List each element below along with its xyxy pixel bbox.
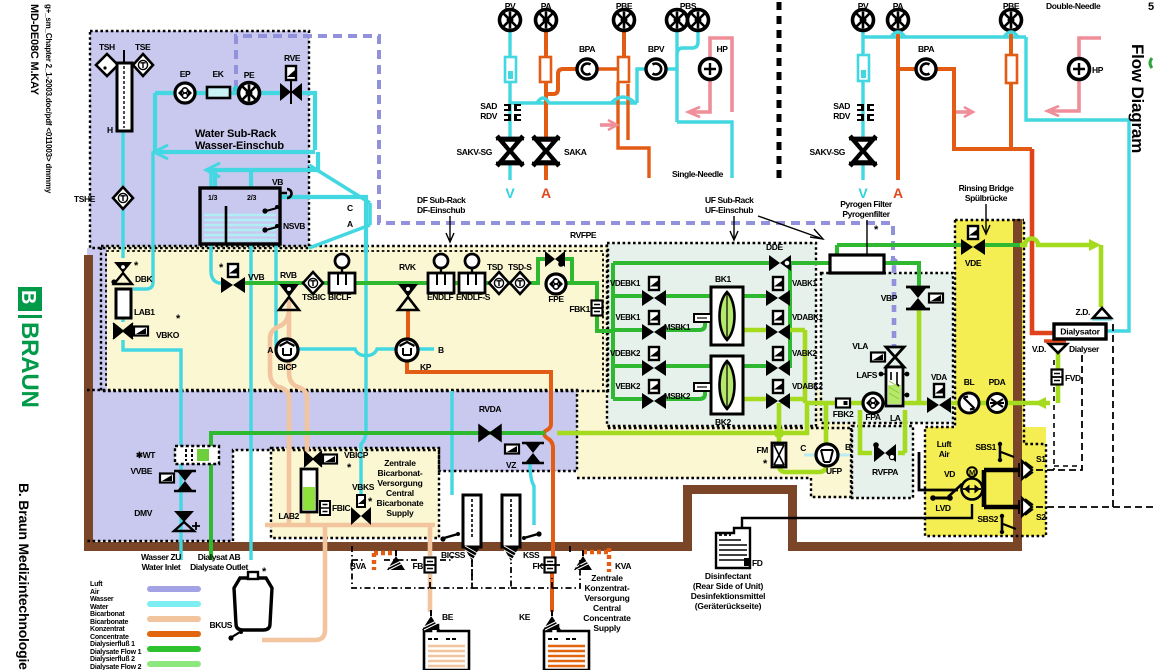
main used dialysate line: [557, 403, 807, 433]
svg-text:VBKS: VBKS: [352, 482, 375, 492]
dialysate out left segment: [211, 433, 545, 560]
svg-text:C: C: [347, 203, 353, 213]
valve RVE: [280, 66, 302, 104]
dialysator body: [1054, 324, 1106, 339]
svg-text:VBICP: VBICP: [344, 450, 369, 460]
valve VABK1: [766, 277, 790, 306]
svg-text:DF-Einschub: DF-Einschub: [417, 205, 465, 215]
svg-text:Bicarbonat: Bicarbonat: [90, 611, 125, 618]
heater to DBK line: [121, 131, 124, 258]
svg-text:Versorgung: Versorgung: [584, 593, 629, 603]
DF yellow right extension: [577, 390, 851, 478]
svg-text:TSD-S: TSD-S: [508, 262, 532, 272]
sensor TSD-S: [510, 272, 530, 294]
svg-text:VDEBK1: VDEBK1: [610, 279, 641, 288]
VEBK1 row: [613, 322, 705, 330]
svg-text:B: B: [845, 442, 851, 452]
wire double-needle venous main: [863, 35, 1026, 38]
svg-text:SAKV-SG: SAKV-SG: [810, 147, 846, 157]
svg-text:FVD: FVD: [1065, 373, 1081, 383]
svg-text:V: V: [505, 185, 515, 201]
svg-text:PE: PE: [244, 70, 255, 80]
svg-text:LAB1: LAB1: [134, 307, 155, 317]
junction node dot: [774, 428, 784, 438]
svg-text:FM: FM: [757, 445, 769, 455]
sensor TSH: [96, 54, 118, 76]
sensor SAD RDV double: [857, 104, 874, 121]
expansion chamber PBE double: [1006, 55, 1017, 83]
valve VVB: [221, 264, 245, 293]
BK right manifold: [803, 330, 808, 403]
valve VBKO: [113, 323, 133, 339]
water trap WT: [175, 446, 219, 464]
svg-text:Bicarbonate: Bicarbonate: [377, 498, 424, 508]
svg-text:RVDA: RVDA: [479, 404, 502, 414]
water sub-rack purple panel: [90, 31, 309, 248]
svg-text:Bicarbonate: Bicarbonate: [90, 619, 129, 626]
air line node dot at pyrogen green crossing: [890, 258, 898, 266]
valve RVDA: [479, 425, 501, 441]
central bicarbonate supply yellow box: [271, 448, 439, 538]
svg-text:EK: EK: [212, 69, 224, 79]
expansion chamber PV double: [858, 55, 869, 81]
svg-text:B: B: [438, 345, 444, 355]
svg-text:VDE: VDE: [965, 258, 982, 268]
svg-text:Rinsing Bridge: Rinsing Bridge: [959, 183, 1015, 193]
partial green mark right edge: [1150, 58, 1152, 68]
VZ to KSS line: [530, 462, 534, 525]
svg-text:A: A: [267, 345, 273, 355]
sensor LAFS: [879, 372, 884, 377]
wire to BKUS: [262, 525, 325, 640]
svg-text:Flow Diagram: Flow Diagram: [1128, 44, 1147, 153]
filter right port to VBP: [884, 263, 919, 287]
Z.D. cyan base: [1092, 317, 1112, 320]
svg-text:BICLF: BICLF: [328, 292, 351, 302]
valve VVBE: [174, 471, 196, 491]
pump PE: [239, 83, 260, 104]
probe MSBK2: [694, 383, 711, 391]
wire RVB through BICP to VBICP: [289, 300, 307, 452]
svg-text:ENDLF-S: ENDLF-S: [456, 292, 491, 302]
svg-text:S2: S2: [1036, 512, 1046, 522]
tank VB water tank: [200, 177, 305, 244]
svg-text:TSD: TSD: [487, 262, 503, 272]
svg-text:DMV: DMV: [134, 508, 152, 518]
svg-text:B: B: [17, 290, 39, 304]
wire double-needle to dialysator: [1026, 37, 1129, 331]
rinsing bridge VDE line: [837, 245, 1022, 255]
air line down to VLA: [892, 266, 897, 346]
svg-text:VVB: VVB: [248, 272, 265, 282]
svg-text:B. Braun Medizintechnologie: B. Braun Medizintechnologie: [16, 483, 32, 670]
lever at BICSS: [444, 534, 458, 538]
KVA dashed stub: [583, 548, 609, 572]
VABK drain manifold: [743, 263, 790, 366]
water rack return arrow 1: [158, 150, 315, 154]
switch SBS2: [1000, 514, 1016, 534]
svg-text:Double-Needle: Double-Needle: [1046, 1, 1101, 11]
air line node dot at PE: [233, 86, 240, 93]
svg-text:PV: PV: [505, 1, 516, 11]
svg-text:Pyrogen Filter: Pyrogen Filter: [840, 199, 893, 209]
dash-dot piping KVA group: [472, 546, 580, 588]
svg-text:RVK: RVK: [399, 262, 417, 272]
pump PV: [500, 10, 521, 31]
DF sub-rack border: [101, 246, 608, 391]
wire down to KE: [550, 560, 554, 634]
wire PBS lines: [677, 31, 698, 122]
svg-text:VEBK2: VEBK2: [615, 382, 641, 391]
label central bicarbonate supply: [377, 458, 424, 518]
restrictor FVD: [1052, 370, 1063, 385]
svg-text:FD: FD: [752, 558, 763, 568]
svg-text:VVBE: VVBE: [130, 466, 152, 476]
svg-text:Concentrate: Concentrate: [90, 634, 129, 641]
svg-text:PA: PA: [541, 1, 552, 11]
svg-text:Dialyser: Dialyser: [1069, 344, 1100, 354]
svg-text:BKUS: BKUS: [210, 620, 233, 630]
valve RVK: [398, 284, 418, 310]
BVA dashed stub: [374, 553, 396, 570]
conductivity ENDLF-S: [459, 254, 485, 293]
svg-text:Disinfectant: Disinfectant: [705, 571, 752, 581]
valve SAKA: [532, 136, 560, 166]
svg-text:Dialysator: Dialysator: [1060, 327, 1100, 337]
nozzle VB: [280, 189, 292, 198]
svg-text:Central: Central: [593, 603, 621, 613]
chamber LAB2: [278, 469, 317, 521]
sensor TSE: [133, 54, 153, 76]
pyrogen filter box border: [821, 273, 953, 423]
svg-text:Konzentrat: Konzentrat: [90, 626, 125, 633]
svg-text:PDA: PDA: [989, 377, 1006, 387]
FPE outlet to FBK1: [566, 283, 613, 331]
RVFPA mint panel: [852, 426, 913, 498]
wire PA double-needle down to A: [896, 31, 900, 180]
svg-text:RVE: RVE: [284, 53, 301, 63]
svg-text:NSVB: NSVB: [283, 221, 305, 231]
svg-text:Z.D.: Z.D.: [1076, 307, 1090, 317]
svg-text:Dialysate Outlet: Dialysate Outlet: [190, 562, 248, 572]
pump PBE double: [1001, 10, 1022, 31]
svg-text:ENDLF: ENDLF: [427, 292, 454, 302]
VEBK2 row: [613, 391, 705, 399]
svg-text:A: A: [347, 219, 353, 229]
rinse down to Z.D.: [1099, 245, 1104, 307]
sensor TSHE: [113, 187, 133, 209]
svg-text:2/3: 2/3: [247, 195, 256, 202]
svg-text:FPE: FPE: [548, 294, 564, 304]
rinsing bridge border: [925, 220, 1046, 536]
UF sub-rack border: [607, 243, 816, 426]
valve VDABK2: [766, 380, 790, 409]
UF sub-rack mint panel: [607, 243, 816, 426]
svg-text:g+_sm_Chapter 2_1-2003.doc/pdf: g+_sm_Chapter 2_1-2003.doc/pdf <011003> …: [44, 4, 53, 194]
connector S1: [1019, 461, 1033, 479]
svg-text:Dialysate Flow 2: Dialysate Flow 2: [90, 664, 142, 670]
svg-text:PBE: PBE: [1003, 1, 1020, 11]
svg-text:DDE: DDE: [766, 242, 783, 252]
dash-dot piping BVA group: [352, 546, 472, 588]
svg-text:Konzentrat-: Konzentrat-: [584, 583, 629, 593]
svg-text:MSBK1: MSBK1: [664, 323, 691, 332]
svg-text:FBK2: FBK2: [833, 409, 854, 419]
svg-text:Spülbrücke: Spülbrücke: [965, 193, 1008, 203]
balance chamber BK2: [711, 356, 743, 427]
RVFPE bypass loop: [538, 259, 572, 283]
svg-text:H: H: [107, 125, 113, 135]
rinsing bridge yellow panel: [955, 220, 1024, 430]
UFP inner line: [804, 454, 850, 457]
valve VDEBK1: [642, 277, 666, 306]
wire RVB branch left: [270, 308, 289, 525]
pump PA double: [888, 10, 909, 31]
svg-text:Zentrale: Zentrale: [384, 458, 416, 468]
svg-text:LAFS: LAFS: [856, 370, 877, 380]
wire DBK chain down to WT: [123, 288, 181, 446]
svg-text:VBP: VBP: [881, 293, 898, 303]
svg-text:Wasser: Wasser: [90, 596, 114, 603]
svg-text:Dialysierfluß 2: Dialysierfluß 2: [90, 656, 135, 663]
svg-text:Dialysat AB: Dialysat AB: [198, 552, 241, 562]
connector S2: [1019, 498, 1033, 516]
wire BPA branch single: [546, 69, 577, 94]
svg-text:VD: VD: [944, 469, 955, 479]
svg-text:Supply: Supply: [386, 508, 414, 518]
valve VLA: [886, 347, 904, 367]
svg-text:5: 5: [1148, 1, 1154, 13]
svg-text:VDA: VDA: [931, 373, 947, 382]
svg-text:✱WT: ✱WT: [136, 450, 156, 460]
label central concentrate supply: [583, 573, 631, 633]
svg-text:1/3: 1/3: [208, 195, 217, 202]
pump PA: [536, 10, 557, 31]
svg-text:Water Inlet: Water Inlet: [142, 562, 181, 572]
svg-text:SAKV-SG: SAKV-SG: [457, 147, 493, 157]
svg-text:PBE: PBE: [616, 1, 633, 11]
funnel KVA: [574, 550, 592, 570]
svg-text:Water: Water: [90, 604, 109, 611]
svg-text:FPA: FPA: [865, 412, 880, 422]
water rack RVE outlet: [301, 93, 315, 150]
svg-text:VZ: VZ: [506, 460, 516, 470]
water rack EP feed vertical: [153, 93, 157, 152]
wire LAB2 bottom connect: [306, 512, 311, 525]
DF rack fresh dialysate main: [243, 281, 540, 285]
svg-text:MSBK2: MSBK2: [664, 392, 691, 401]
sensor BPA: [577, 59, 597, 79]
svg-text:Single-Needle: Single-Needle: [672, 169, 724, 179]
svg-text:MD-DE08C M.KAY: MD-DE08C M.KAY: [28, 4, 40, 96]
pump KP: [396, 339, 418, 361]
restrictor FBK2: [836, 399, 850, 408]
svg-text:SBS1: SBS1: [975, 442, 996, 452]
wire KP to VZ down: [407, 361, 551, 424]
wire BE funnel to container: [429, 628, 434, 634]
valve VBP: [906, 287, 930, 309]
rinse line hop over concentrate: [1020, 239, 1090, 245]
probe MSBK1: [694, 314, 711, 322]
svg-text:Supply: Supply: [593, 623, 621, 633]
svg-text:UFP: UFP: [826, 466, 843, 476]
sensor BPA double: [916, 59, 936, 79]
svg-text:A: A: [541, 185, 551, 201]
pump PBS (pair): [667, 10, 688, 31]
svg-text:TSBIC: TSBIC: [302, 292, 326, 302]
port Z.D.: [1093, 308, 1111, 318]
svg-text:Water Sub-Rack: Water Sub-Rack: [195, 128, 277, 140]
purple band border: [87, 390, 577, 541]
black pipe FD to LVD: [742, 504, 972, 528]
restrictor FBIC: [320, 501, 330, 515]
svg-text:UF Sub-Rack: UF Sub-Rack: [705, 195, 754, 205]
pump HP double: [1069, 59, 1090, 80]
svg-text:C: C: [800, 443, 806, 453]
svg-text:SAKA: SAKA: [564, 147, 587, 157]
pump BICP: [276, 339, 298, 361]
filter FM: [772, 443, 786, 467]
long DF down line to BICSS: [361, 253, 452, 495]
svg-text:Dialysate Flow 1: Dialysate Flow 1: [90, 649, 142, 656]
svg-text:Pyrogenfilter: Pyrogenfilter: [842, 209, 890, 219]
pump FPA: [863, 393, 883, 413]
svg-text:RVFPE: RVFPE: [570, 230, 597, 240]
VDABK rows: [743, 330, 805, 399]
valve VABK2: [766, 347, 790, 376]
VDEBK1 row: [613, 294, 711, 298]
sensor TSD: [489, 272, 509, 294]
svg-text:VEBK1: VEBK1: [615, 313, 641, 322]
pink HP single-needle: [710, 38, 732, 112]
lever LVD: [948, 484, 962, 497]
purple left strip: [87, 248, 107, 391]
blood dashed S2 to edge and Z.D.: [1036, 323, 1156, 507]
sensor TSBIC: [303, 272, 323, 294]
svg-text:FBK1: FBK1: [569, 304, 590, 314]
valve SAKV-SG: [496, 136, 524, 166]
svg-text:BICP: BICP: [278, 362, 297, 372]
pump BL: [959, 393, 979, 413]
tank feed lines: [215, 170, 251, 188]
svg-text:VABK2: VABK2: [792, 349, 817, 358]
B BRAUN logo: [16, 287, 43, 408]
left arrowhead on drain: [1034, 397, 1046, 409]
pump VD with motor M: [962, 467, 983, 499]
svg-text:BRAUN: BRAUN: [16, 322, 43, 408]
svg-text:SBS2: SBS2: [977, 514, 998, 524]
wire PBE single down: [622, 31, 626, 57]
svg-text:PBS: PBS: [680, 1, 697, 11]
wire PV single-needle down: [508, 31, 511, 180]
sensor SAD RDV: [504, 104, 521, 121]
red link over V.D.: [1044, 339, 1066, 342]
svg-text:RVB: RVB: [280, 270, 297, 280]
pump HP heparin: [700, 59, 721, 80]
valve RVFPE: [545, 251, 565, 267]
pump PV double: [853, 10, 874, 31]
sensor LAB1: [116, 289, 131, 318]
VBP down line: [917, 309, 922, 403]
drain main through FBK2 FPA LA VDA BL PDA: [805, 401, 1050, 406]
svg-text:VDEBK2: VDEBK2: [610, 349, 641, 358]
wire BPA to PBE return single: [598, 69, 649, 178]
VDABK2 to junction: [777, 403, 782, 433]
wire PV double-needle down: [861, 31, 864, 180]
wire rack feed to VVB: [211, 170, 223, 283]
wire PBE double down: [1009, 31, 1013, 149]
wire PBS to single-needle end: [677, 122, 732, 178]
svg-text:BL: BL: [964, 377, 975, 387]
svg-text:SAD: SAD: [833, 101, 850, 111]
svg-text:TSHE: TSHE: [74, 194, 96, 204]
heater H: [117, 63, 132, 131]
valve DMV: [174, 511, 200, 531]
container KE: [544, 625, 589, 670]
RVFPA box border: [852, 426, 913, 498]
svg-text:LVD: LVD: [935, 503, 950, 513]
svg-text:EP: EP: [180, 69, 191, 79]
svg-text:BICSS: BICSS: [441, 550, 466, 560]
svg-text:Bicarbonat-: Bicarbonat-: [377, 468, 422, 478]
float NSVB: [263, 208, 277, 211]
wire rack feed to DBK chain: [133, 152, 153, 289]
wire single-needle venous main: [510, 101, 637, 104]
expansion chamber PBE: [618, 57, 629, 82]
port V.D.: [1049, 344, 1067, 353]
VD triangle down to arrow: [1056, 353, 1061, 403]
wire BPV branch: [637, 69, 677, 103]
dashed FVD box: [1054, 360, 1082, 470]
svg-text:HP: HP: [716, 44, 728, 54]
UF box left manifold: [611, 263, 615, 399]
expansion chamber PV: [505, 57, 516, 82]
tank outlet down pipes: [251, 244, 276, 560]
svg-text:BPA: BPA: [918, 44, 934, 54]
FM/UFP yellow area border: [577, 428, 852, 497]
sensor PDA: [988, 394, 1007, 413]
valve RVB: [279, 284, 299, 310]
lance KSS: [502, 495, 520, 562]
conductivity ENDLF: [428, 254, 454, 293]
UFP loop: [779, 405, 826, 472]
BICP KP degassing line with hop: [276, 349, 434, 356]
UF top line to DDE and filter: [613, 261, 830, 265]
tank outlet C/A funnel: [309, 165, 370, 248]
svg-text:DF Sub-Rack: DF Sub-Rack: [417, 195, 466, 205]
RVFPA bypass: [860, 410, 905, 453]
svg-text:DBK: DBK: [135, 274, 153, 284]
svg-text:Luft: Luft: [90, 581, 103, 588]
frame bottom with step around disinfectant: [84, 485, 1022, 551]
svg-text:Luft: Luft: [937, 439, 952, 449]
pyrogen filter mint panel: [821, 273, 953, 423]
svg-text:VBKO: VBKO: [156, 330, 180, 340]
svg-text:PA: PA: [893, 1, 904, 11]
svg-text:VABK1: VABK1: [792, 279, 817, 288]
svg-text:(Geräterückseite): (Geräterückseite): [695, 601, 762, 611]
valve DDE: [769, 255, 791, 271]
svg-text:S1: S1: [1036, 454, 1046, 464]
svg-text:TSH: TSH: [99, 42, 115, 52]
svg-text:BK2: BK2: [715, 417, 731, 427]
funnel BVA: [387, 550, 405, 570]
lever at KSS: [524, 534, 538, 538]
valve VDE: [961, 226, 985, 255]
svg-text:(Rear Side of Unit): (Rear Side of Unit): [693, 581, 764, 591]
pump FPE: [546, 274, 566, 294]
wire PA single-needle down to SAKA: [544, 31, 548, 180]
